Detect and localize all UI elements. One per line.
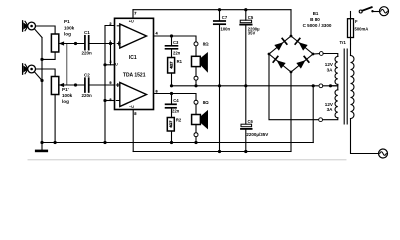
node ground rail left [40, 141, 43, 144]
page scan artifact line [28, 159, 346, 161]
node LS2 rail junction [194, 141, 197, 144]
svg-text:3A: 3A [327, 107, 334, 112]
resistor R2 [167, 118, 174, 132]
wire LS2 bottom to ground rail [195, 137, 197, 143]
capacitor C2 [85, 78, 89, 92]
svg-text:C3: C3 [173, 40, 179, 45]
diode D3 lower-left [277, 60, 286, 68]
wire jack2 sleeve diagonal [34, 72, 42, 81]
wire jack2 tip to P1' top [36, 69, 56, 77]
diode D2 cathode bar [295, 39, 300, 45]
node R2 rail junction [170, 141, 173, 144]
wire speaker LS1 to terminal [195, 67, 197, 77]
svg-text:3: 3 [109, 59, 112, 64]
svg-text:12V: 12V [325, 62, 334, 67]
node R1 ground junction [170, 84, 173, 87]
wire speaker LS2 to terminal [195, 125, 197, 133]
capacitor C7 [214, 21, 225, 24]
speaker LS1 [192, 53, 208, 71]
switch S1 [359, 7, 379, 13]
node C6 rail junction [244, 150, 247, 153]
svg-text:220n: 220n [82, 93, 93, 98]
svg-text:8Ω: 8Ω [203, 100, 209, 105]
potentiometer P1 [51, 34, 65, 52]
wire winding1 bottom lead [323, 84, 338, 85]
wire C4 riser [171, 94, 173, 104]
svg-text:+U: +U [129, 20, 134, 24]
svg-text:C5: C5 [248, 15, 254, 20]
input jack J1 symbol [23, 21, 36, 31]
svg-text:B1: B1 [313, 11, 319, 16]
wire bridge AC west down and to winding 2 [269, 54, 318, 120]
wire to speaker LS2 [195, 104, 197, 114]
diode D4 lower-right [296, 60, 305, 68]
svg-text:3A: 3A [327, 67, 334, 72]
transformer primary winding [351, 56, 355, 119]
transformer core [344, 49, 347, 124]
label 12V 3A winding1 [325, 62, 334, 72]
node C5 ground junction [244, 84, 247, 87]
wire IC pin 7 to +U rail [132, 10, 134, 19]
wire C5 riser [245, 10, 247, 21]
wire P1' bottom to ground rail [54, 95, 56, 143]
op-amp A1 triangle [120, 24, 147, 48]
mains terminal bottom [379, 149, 388, 158]
wire +U rail [133, 9, 291, 11]
ground symbol [36, 143, 47, 151]
label F 500mA [355, 19, 369, 32]
wire P1 bottom to ground line [42, 52, 55, 59]
wire bridge minus to -U rail [290, 72, 292, 152]
svg-text:C6: C6 [248, 119, 254, 124]
svg-text:C4: C4 [173, 98, 179, 103]
svg-text:100k: 100k [62, 93, 73, 98]
svg-text:log: log [62, 99, 69, 104]
diode D4 cathode bar [304, 57, 309, 63]
svg-text:4: 4 [156, 31, 159, 36]
wire center ground to transformer tap [172, 85, 319, 87]
diode D3 cathode bar [273, 57, 278, 63]
label P1' 100k log [62, 87, 73, 104]
svg-text:8Ω: 8Ω [203, 41, 209, 46]
svg-text:4Ω7: 4Ω7 [169, 62, 173, 69]
svg-text:22n: 22n [172, 109, 180, 114]
wire C4 to R2 [171, 108, 173, 117]
wire winding2 bottom lead [323, 118, 338, 120]
wire to speaker LS1 [195, 46, 197, 56]
wire IC pin 2 to ground vertical [105, 26, 115, 143]
wire C7 riser [219, 10, 221, 21]
wire primary top lead to fuse [350, 44, 352, 56]
wire wiper1 to C1 [65, 43, 84, 45]
wire C6 to -U rail [245, 130, 247, 152]
label C1 220n [82, 30, 93, 56]
svg-text:U: U [115, 63, 118, 67]
wire bridge AC east to winding 1 [313, 53, 319, 55]
wire ground vertical left [41, 38, 43, 143]
label B1 B80 C5000/3300 [303, 11, 332, 28]
svg-text:100k: 100k [64, 25, 75, 30]
diode D1 upper-left [274, 42, 283, 50]
wire C2 to IC pin 9 [90, 84, 115, 86]
svg-text:2200µ/35V: 2200µ/35V [246, 132, 268, 137]
op-amp A1 input polarity marks [117, 26, 120, 45]
svg-text:500mA: 500mA [355, 27, 369, 32]
speaker LS1 terminal bottom [194, 76, 198, 80]
wire LS1 bottom to ground wire [195, 80, 197, 86]
terminal center tap [319, 84, 323, 88]
label C3 22n [173, 40, 181, 56]
capacitor C5 electrolytic [240, 20, 251, 24]
node C7 rail junction [218, 8, 221, 11]
diode D1 cathode bar [282, 39, 287, 45]
capacitor C1 [85, 36, 89, 50]
wire IC pin 6 output [154, 94, 197, 101]
op-amp A2 input polarity marks [116, 84, 119, 101]
wire wiper2 to C2 [65, 84, 84, 86]
wire IC pin 8 to ground vertical [105, 100, 115, 102]
wire jack1 tip to P1 top [36, 26, 56, 34]
wire -U rail [133, 151, 291, 153]
node center tap junction [312, 84, 315, 87]
diode D2 upper-right [299, 42, 308, 50]
capacitor C4 [166, 104, 176, 108]
label C5 2200u 35V [248, 15, 260, 36]
node wiper1 junction [74, 42, 77, 45]
node pin1 wire junction [109, 42, 112, 45]
fuse F 500mA [348, 12, 354, 45]
node pin3 junction [103, 63, 106, 66]
terminal winding1 top [319, 52, 323, 56]
node winding junction [329, 84, 332, 87]
svg-text:R2: R2 [176, 117, 182, 122]
node pin2 rail junction [103, 141, 106, 144]
node wiper2 junction [74, 83, 77, 86]
op-amp IC1 box [115, 18, 154, 109]
wire gang link between wipers [66, 44, 68, 86]
speaker LS2 terminal bottom [194, 133, 198, 137]
resistor R1 [168, 58, 175, 74]
svg-text:100n: 100n [221, 27, 231, 32]
input jack J2 symbol [23, 64, 36, 74]
bridge rectifier B1 diamond [269, 36, 313, 72]
svg-text:F: F [355, 19, 358, 24]
svg-text:5: 5 [134, 111, 137, 116]
wire bridge plus to +U rail [290, 10, 292, 36]
svg-text:C 5000 / 3300: C 5000 / 3300 [303, 23, 332, 28]
svg-text:TDA 1521: TDA 1521 [123, 73, 146, 79]
svg-text:IC1: IC1 [129, 55, 137, 61]
transformer secondary winding 2 [335, 90, 338, 118]
node C4 junction [170, 92, 173, 95]
wire pin3 link [110, 44, 112, 65]
label C2 220n [82, 73, 93, 98]
svg-text:−U: −U [129, 105, 134, 109]
speaker LS2 [192, 111, 208, 128]
svg-text:22n: 22n [173, 51, 181, 56]
svg-text:R1: R1 [177, 59, 183, 64]
svg-text:C1: C1 [84, 30, 90, 35]
label C7 100n [221, 15, 231, 32]
label C4 22n [172, 98, 180, 113]
svg-text:P1: P1 [64, 19, 70, 24]
node pin8 junction [103, 99, 106, 102]
svg-text:C2: C2 [84, 73, 90, 78]
terminal winding2 bottom [319, 118, 323, 122]
wire C1 to IC pin 1 [90, 43, 115, 45]
wire IC pin 5 to -U rail [132, 110, 134, 152]
svg-text:12V: 12V [325, 102, 334, 107]
capacitor C3 [166, 46, 178, 49]
node pot1 bottom junction [40, 58, 43, 61]
label 12V 3A winding2 [325, 102, 334, 112]
speaker LS1 terminal top [194, 42, 198, 46]
wire ground rail [42, 142, 313, 144]
wire C5 to ground wire and C6 [245, 26, 247, 125]
svg-text:Tr1: Tr1 [340, 40, 347, 45]
wire C3 to R1 [171, 50, 173, 58]
capacitor C6 electrolytic [241, 124, 252, 129]
label P1 100k log [64, 19, 75, 37]
svg-text:35V: 35V [248, 31, 256, 36]
transformer secondary winding 1 [335, 56, 338, 84]
svg-text:220n: 220n [82, 51, 93, 56]
wire C3 riser [171, 36, 173, 45]
speaker LS2 terminal top [194, 100, 198, 104]
wire winding2 top lead [332, 86, 338, 90]
wire center tap to ground rail [312, 86, 314, 143]
wire C7 to ground rail [219, 25, 221, 152]
node C5 rail junction [244, 8, 247, 11]
wire IC pin 4 output [154, 36, 197, 42]
node C7 ground wire junction [218, 84, 221, 87]
wire pin3 [105, 64, 115, 66]
node bridge corners [268, 35, 315, 74]
svg-text:C7: C7 [222, 15, 228, 20]
wire R2 to ground rail [171, 131, 173, 143]
node C7 minus rail junction [218, 150, 221, 153]
svg-text:P1': P1' [62, 87, 69, 92]
svg-text:B 80: B 80 [310, 17, 320, 22]
mains terminal top [380, 7, 389, 16]
svg-text:7: 7 [134, 11, 136, 16]
potentiometer P1' [51, 77, 65, 95]
svg-text:4Ω7: 4Ω7 [169, 121, 173, 128]
node C3 junction [170, 34, 173, 37]
wire jack1 sleeve diagonal to ground line [34, 29, 42, 38]
label C6 2200u/35V [246, 119, 268, 137]
node LS1 ground junction [194, 84, 197, 87]
node jack2 sleeve junction [40, 79, 43, 82]
node pot2 rail junction [54, 141, 57, 144]
wire winding1 top lead [323, 54, 338, 57]
wire primary bottom lead [351, 119, 379, 154]
op-amp A2 triangle [120, 83, 147, 107]
svg-text:log: log [64, 32, 71, 37]
pin number labels [109, 21, 112, 102]
wire R1 to ground wire [171, 73, 173, 86]
